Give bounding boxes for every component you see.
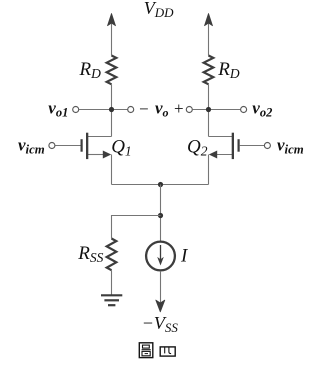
terminal circle right of plus bbox=[186, 107, 192, 113]
terminal circle left of minus bbox=[128, 107, 134, 113]
wire: left rail resistor bottom to drain corner bbox=[111, 84, 113, 136]
caption glyph TU (figure) bbox=[139, 343, 153, 358]
resistor RD (right) bbox=[204, 56, 214, 85]
transistor Q1 bbox=[81, 133, 112, 159]
svg-text:vo: vo bbox=[155, 99, 169, 120]
junction node tail split bbox=[158, 213, 163, 218]
junction node left drain bbox=[109, 107, 114, 112]
transistor Q2 bbox=[209, 133, 240, 159]
wire: right rail resistor bottom to drain corner bbox=[208, 84, 210, 136]
ground bbox=[101, 295, 122, 305]
svg-text:vo1: vo1 bbox=[48, 99, 68, 120]
resistor RSS bbox=[107, 239, 117, 271]
terminal circle vo2 bbox=[241, 107, 247, 113]
terminal circle vo1 bbox=[73, 107, 79, 113]
terminal circle vicm left bbox=[49, 143, 55, 149]
gate wire right bbox=[240, 145, 265, 147]
gate wire left bbox=[55, 145, 80, 147]
wire: common source horizontal bbox=[112, 184, 209, 186]
resistor RD (left) bbox=[107, 56, 117, 85]
wire: Q2 source down bbox=[208, 155, 210, 185]
caption glyph SI (four) bbox=[160, 347, 175, 356]
junction node right drain bbox=[206, 107, 211, 112]
terminal circle vicm right bbox=[264, 143, 270, 149]
wire vo2 line bbox=[193, 109, 241, 111]
svg-text:−: − bbox=[139, 99, 149, 118]
wire: Q1 source down bbox=[111, 155, 113, 185]
svg-text:−VSS: −VSS bbox=[142, 313, 179, 335]
wire: current source to -VSS with arrow bbox=[156, 271, 165, 312]
svg-text:I: I bbox=[180, 246, 189, 267]
svg-text:Q2: Q2 bbox=[187, 136, 208, 158]
svg-text:VDD: VDD bbox=[144, 0, 174, 20]
wire: common node down to current source bbox=[160, 185, 162, 242]
junction node common source bbox=[158, 182, 163, 187]
power rail VDD arrow (left) bbox=[108, 14, 116, 56]
current source I bbox=[146, 242, 175, 271]
svg-text:vicm: vicm bbox=[277, 136, 304, 157]
svg-text:RD: RD bbox=[79, 59, 102, 81]
wire: RSS to ground bbox=[111, 270, 113, 294]
svg-text:vicm: vicm bbox=[18, 136, 45, 157]
svg-text:RSS: RSS bbox=[77, 243, 103, 265]
svg-text:Q1: Q1 bbox=[111, 136, 131, 158]
wire: branch to RSS bbox=[112, 216, 161, 239]
svg-text:+: + bbox=[174, 99, 184, 118]
power rail VDD arrow (right) bbox=[205, 14, 213, 56]
svg-text:vo2: vo2 bbox=[252, 99, 272, 120]
wire vo1 line bbox=[79, 109, 128, 111]
svg-text:RD: RD bbox=[217, 59, 240, 81]
